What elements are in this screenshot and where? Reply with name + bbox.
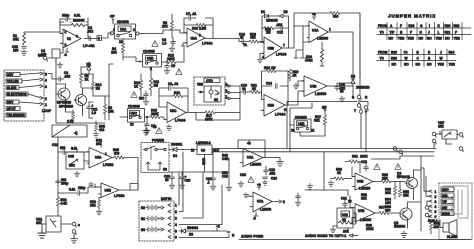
svg-text:2: 2 [283, 200, 285, 204]
node junction [146, 116, 150, 117]
ground [339, 96, 345, 102]
op-amp U2A [183, 28, 212, 47]
svg-text:J: J [428, 31, 430, 35]
svg-text:SLIDE: SLIDE [7, 86, 16, 90]
capacitor C31 [341, 197, 352, 209]
svg-text:YES: YES [398, 37, 404, 41]
wire caps row [169, 158, 229, 185]
capacitor C4b [48, 71, 70, 81]
wire R24 [320, 62, 324, 66]
resistor R18 [249, 33, 264, 44]
svg-text:22K: 22K [382, 176, 389, 180]
svg-text:FROM: FROM [378, 51, 388, 55]
svg-text:682: 682 [60, 146, 66, 150]
analog switch U3A CD4066 [110, 20, 142, 44]
potentiometer VR1 [36, 206, 61, 232]
wire U4A out [328, 32, 353, 78]
resistor R1 [13, 33, 26, 45]
svg-text:U3C: U3C [131, 112, 138, 116]
resistor R42 [96, 139, 103, 148]
svg-text:NO: NO [416, 63, 421, 67]
wire H label [284, 108, 287, 112]
terminal SW [441, 205, 454, 210]
svg-text:13: 13 [119, 40, 123, 44]
svg-text:410: 410 [99, 128, 105, 132]
op-amp U4A [307, 21, 331, 43]
ground top power [143, 125, 157, 135]
svg-text:100: 100 [41, 53, 47, 57]
svg-text:YES: YES [449, 63, 455, 67]
wires Q1 Q2 collectors [56, 60, 109, 123]
svg-text:GND: GND [202, 158, 206, 166]
op-amp U4B [302, 76, 327, 97]
svg-text:POWER: POWER [152, 139, 165, 143]
svg-text:6: 6 [175, 236, 177, 240]
connector HUB pins [428, 190, 438, 223]
op-amp U8A [87, 148, 113, 169]
svg-text:WC: WC [139, 97, 145, 101]
resistor R11 [149, 70, 159, 96]
speaker module dotted box [439, 183, 472, 240]
svg-text:ELECTRNCS: ELECTRNCS [7, 92, 26, 96]
svg-text:U2A: U2A [191, 37, 198, 41]
svg-text:1M: 1M [266, 31, 271, 35]
resistor R37 [375, 206, 400, 215]
svg-text:C5: C5 [171, 64, 175, 68]
svg-text:C9, .01: C9, .01 [168, 82, 179, 86]
svg-text:-9: -9 [64, 53, 67, 57]
transistor Q2 [59, 88, 87, 110]
svg-text:M5: M5 [322, 106, 327, 110]
ground [93, 132, 99, 138]
svg-text:LM393: LM393 [317, 37, 328, 41]
svg-text:C4: C4 [404, 51, 408, 55]
svg-text:SW+: SW+ [442, 188, 449, 192]
wire [60, 18, 92, 39]
svg-text:2: 2 [133, 28, 135, 32]
bus wire +9 [212, 148, 434, 150]
svg-text:U6A: U6A [247, 156, 254, 160]
wire bus end [446, 139, 452, 144]
battery B2 [141, 205, 164, 210]
svg-text:U8A: U8A [95, 156, 102, 160]
svg-text:7: 7 [283, 44, 285, 48]
svg-text:5: 5 [435, 210, 437, 214]
svg-text:-9: -9 [253, 217, 256, 221]
wire Q4 Q3 collectors [350, 156, 421, 231]
svg-text:L: L [438, 31, 440, 35]
svg-text:LF444: LF444 [175, 119, 185, 123]
svg-text:900: 900 [385, 208, 391, 212]
svg-text:1: 1 [226, 95, 228, 99]
svg-text:T: T [354, 109, 356, 113]
svg-text:2: 2 [435, 195, 437, 199]
resistor R28 [56, 197, 68, 206]
svg-text:6K: 6K [214, 98, 219, 102]
resistor R53 [398, 189, 409, 197]
op-amp U6A LM358 [238, 140, 265, 167]
battery box BATTS [139, 197, 174, 241]
svg-text:AUDIO PCMS: AUDIO PCMS [241, 235, 263, 239]
svg-text:27K: 27K [162, 25, 169, 29]
svg-text:C26: C26 [271, 177, 277, 181]
svg-text:D1: D1 [261, 10, 265, 14]
svg-text:HUB-1: HUB-1 [428, 219, 438, 223]
resistor R9 [103, 96, 114, 120]
optocoupler VR2 dashed box [194, 77, 225, 105]
svg-text:F: F [410, 31, 412, 35]
svg-text:YES: YES [454, 37, 460, 41]
svg-text:2: 2 [226, 89, 228, 93]
resistor R20 [262, 26, 281, 34]
connector P1 dashed box [4, 70, 44, 121]
svg-text:R37: R37 [379, 206, 385, 210]
svg-text:YES: YES [438, 63, 444, 67]
svg-text:LF444: LF444 [275, 113, 285, 117]
svg-text:NO: NO [392, 63, 397, 67]
resistor R39 [373, 173, 405, 183]
op-amp U6B LM358 [352, 173, 373, 191]
diode D4a [87, 62, 92, 74]
svg-text:U4A: U4A [312, 29, 319, 33]
svg-text:+9: +9 [312, 13, 316, 17]
op-amp U1 [60, 29, 95, 48]
svg-text:1K: 1K [342, 218, 347, 222]
svg-text:C18: C18 [361, 160, 367, 164]
resistor R16 [134, 74, 143, 96]
svg-text:U3D: U3D [147, 57, 154, 61]
resistor R26 [288, 69, 298, 81]
transistor Q4 MPSA13 [397, 170, 418, 200]
svg-text:U12: U12 [342, 213, 348, 217]
trimpot VR5 [66, 149, 89, 169]
op-amp U7B LM393 [352, 204, 375, 223]
resistor R41b [345, 160, 360, 173]
svg-text:2.2M: 2.2M [199, 27, 206, 31]
connector P1 pins [19, 72, 52, 113]
svg-text:TA: TA [243, 43, 248, 47]
svg-text:1K: 1K [337, 171, 342, 175]
labels R48 [222, 154, 229, 179]
svg-text:13: 13 [130, 123, 134, 127]
output jack J2 [352, 14, 368, 152]
svg-text:3: 3 [435, 200, 437, 204]
svg-text:TIP: TIP [442, 200, 448, 204]
svg-text:100K: 100K [205, 118, 213, 122]
svg-text:JUMPER MATRIX: JUMPER MATRIX [388, 14, 436, 19]
diode D5 1N4001 [179, 226, 214, 237]
svg-text:+9: +9 [257, 183, 261, 187]
terminal SW+ [441, 187, 454, 192]
svg-text:R41: R41 [352, 155, 358, 159]
capacitor C32 [12, 45, 26, 53]
capacitor C25 220p [58, 186, 101, 195]
svg-text:U3A: U3A [120, 28, 127, 32]
connector P1 labels [6, 73, 28, 118]
diode D4 1N4001 [169, 143, 183, 159]
resistor R13 [192, 23, 206, 30]
svg-text:LF444: LF444 [276, 53, 286, 57]
svg-text:R36: R36 [391, 57, 397, 61]
svg-text:1M: 1M [271, 66, 276, 70]
svg-text:~2: ~2 [216, 225, 220, 229]
svg-text:5K: 5K [252, 87, 257, 91]
svg-text:2: 2 [45, 97, 47, 101]
svg-text:.022: .022 [64, 74, 70, 78]
capacitor C16 [240, 84, 250, 95]
jumper matrix table 1 [377, 23, 471, 41]
svg-text:100p: 100p [61, 182, 68, 186]
svg-text:4: 4 [45, 79, 47, 83]
svg-text:3: 3 [65, 43, 67, 47]
svg-text:240: 240 [114, 151, 120, 155]
capacitor C28 with ground [238, 173, 246, 187]
svg-text:LF-441: LF-441 [83, 44, 95, 48]
op-amp U8B [98, 183, 124, 198]
transistor Q1 [56, 84, 71, 105]
capacitor C12 [276, 23, 289, 35]
svg-text:RING: RING [442, 212, 450, 216]
svg-text:SPOT: SPOT [7, 107, 16, 111]
svg-text:R32: R32 [454, 24, 460, 28]
svg-text:HL3M5: HL3M5 [447, 235, 458, 239]
svg-text:U5B: U5B [268, 47, 275, 51]
node 6 tag [97, 36, 102, 41]
inline connector on bus [393, 147, 402, 155]
svg-text:1K: 1K [134, 85, 139, 89]
resistor R49 [112, 148, 138, 190]
bus wires from CD4066 U3B to jack [287, 102, 357, 152]
svg-text:1: 1 [105, 152, 107, 156]
capacitor C22 682 [52, 143, 89, 154]
svg-text:4: 4 [435, 205, 437, 209]
resistor R45 [429, 221, 439, 234]
svg-text:LM393: LM393 [360, 218, 371, 222]
svg-text:C12: C12 [277, 31, 283, 35]
svg-text:C7, .01: C7, .01 [186, 12, 197, 16]
svg-text:LM358: LM358 [359, 187, 370, 191]
svg-text:.022: .022 [269, 172, 275, 176]
svg-text:a: a [78, 223, 80, 227]
svg-text:TO: TO [380, 31, 385, 35]
svg-text:LM393: LM393 [260, 208, 271, 212]
wire U4A input [294, 26, 309, 42]
svg-text:15K: 15K [403, 193, 410, 197]
svg-text:.022: .022 [276, 23, 282, 27]
battery pins [168, 204, 177, 240]
resistor R30 [330, 168, 352, 181]
svg-text:B1: B1 [141, 217, 145, 221]
wire U2D out to U4B [285, 81, 304, 105]
capacitor C21 electrolytic [87, 102, 98, 115]
svg-text:LM7805-8: LM7805-8 [196, 141, 211, 145]
svg-text:R20: R20 [391, 51, 397, 55]
capacitor C30 [335, 83, 353, 94]
svg-text:J: J [440, 51, 442, 55]
svg-text:6: 6 [98, 37, 100, 41]
mic jack [38, 54, 52, 62]
svg-text:11: 11 [311, 129, 315, 133]
svg-text:-Q: -Q [74, 131, 78, 135]
svg-text:1N5231B: 1N5231B [356, 86, 370, 90]
analog switch U3C CD4066 [124, 105, 145, 127]
resistor R29 [90, 198, 101, 210]
ground mid [139, 97, 145, 101]
svg-text:R22: R22 [264, 66, 270, 70]
svg-text:CD4066: CD4066 [117, 20, 129, 24]
svg-text:4.4K: 4.4K [61, 201, 68, 205]
svg-text:1.0: 1.0 [162, 42, 167, 46]
capacitor C19 [264, 166, 276, 176]
input network box [41, 48, 63, 62]
svg-text:1N4001: 1N4001 [171, 143, 182, 147]
svg-text:NO: NO [389, 37, 394, 41]
optocoupler VR3 box [337, 208, 353, 228]
resistor R6 [162, 14, 174, 38]
svg-text:LF444: LF444 [202, 42, 212, 46]
svg-text:NO: NO [427, 37, 432, 41]
resistor R10 [67, 110, 75, 124]
svg-text:3: 3 [45, 85, 47, 89]
svg-text:I: I [429, 24, 430, 28]
capacitor C23 [206, 177, 216, 190]
svg-text:U7B: U7B [358, 209, 365, 213]
svg-text:MPSA13: MPSA13 [397, 175, 410, 179]
svg-text:R34: R34 [449, 51, 455, 55]
svg-text:9: 9 [199, 34, 201, 38]
wire U7A out [272, 200, 285, 204]
warning triangle 2 [176, 69, 182, 75]
svg-text:.1: .1 [207, 180, 210, 184]
svg-text:15: 15 [153, 125, 157, 129]
svg-text:D4: D4 [173, 154, 177, 158]
capacitor C26 [262, 177, 277, 186]
wire input [120, 116, 147, 118]
analog switch U3D CD4066 [139, 50, 162, 71]
svg-text:U6B: U6B [357, 180, 364, 184]
svg-text:R13: R13 [192, 27, 198, 31]
label R41 [352, 155, 434, 160]
capacitor C18 [361, 160, 368, 171]
capacitor C9 [168, 82, 179, 90]
ground [21, 50, 27, 56]
voltage regulator U9 LM7805 [183, 141, 219, 172]
svg-text:2: 2 [175, 210, 177, 214]
capacitor C6 [144, 117, 155, 134]
svg-text:U1: U1 [67, 37, 71, 41]
switch pin OP [110, 15, 115, 25]
svg-text:U4B: U4B [310, 85, 317, 89]
svg-text:50K: 50K [69, 164, 76, 168]
svg-text:10: 10 [240, 36, 244, 40]
resistor R27 [314, 106, 327, 137]
labels cluster bottom right [361, 193, 392, 212]
svg-text:25: 25 [165, 178, 169, 182]
bus wire return [213, 152, 434, 172]
svg-text:YES: YES [408, 37, 414, 41]
svg-text:LM358: LM358 [250, 163, 261, 167]
svg-text:U7A: U7A [257, 200, 264, 204]
svg-text:CD4066: CD4066 [143, 50, 155, 54]
optocoupler VR2 [197, 78, 240, 102]
ground R29 [96, 209, 102, 215]
svg-text:SW: SW [442, 206, 447, 210]
feedback wire U2 [184, 18, 213, 39]
resistor R24 [305, 42, 324, 63]
svg-text:10: 10 [291, 129, 295, 133]
ground Q3 [401, 231, 407, 237]
ground U5B plus [257, 54, 264, 63]
wire U3A out to U2 [142, 30, 187, 34]
svg-text:LF353: LF353 [114, 194, 124, 198]
ground trimpot [74, 171, 80, 177]
svg-text:C45: C45 [68, 155, 74, 159]
svg-text:470K: 470K [305, 59, 313, 63]
power switch S1 dashed box [141, 139, 169, 173]
ground U7A minus [243, 193, 250, 198]
svg-text:S2: S2 [163, 168, 167, 172]
ground [169, 46, 175, 52]
resistor R12 [162, 47, 185, 64]
capacitor C10 with ground [143, 91, 149, 105]
wire -9 below [253, 213, 258, 221]
svg-text:100K: 100K [167, 57, 175, 61]
wire [102, 33, 112, 38]
ground jack [71, 236, 78, 243]
svg-text:TIP: TIP [390, 31, 396, 35]
svg-text:.012: .012 [87, 30, 93, 34]
svg-text:100K: 100K [360, 155, 368, 159]
svg-text:VR2: VR2 [197, 83, 203, 87]
svg-text:AUDIO ROMS TO C27Y-1: AUDIO ROMS TO C27Y-1 [305, 234, 347, 238]
svg-text:C10: C10 [222, 175, 228, 179]
wire hub feeds [421, 168, 429, 206]
svg-text:U3B: U3B [298, 122, 305, 126]
jumper matrix table 2 [377, 49, 456, 67]
resistor R17 [194, 111, 240, 122]
svg-text:TO: TO [380, 57, 385, 61]
svg-text:KEY: KEY [7, 73, 14, 77]
capacitor C1 390p [60, 14, 88, 26]
jack J3 [61, 222, 80, 236]
op-amp U2C [159, 102, 186, 123]
svg-text:220K: 220K [366, 227, 374, 231]
terminal SW- [441, 193, 454, 198]
svg-text:33K: 33K [361, 196, 368, 200]
wire [24, 32, 63, 34]
svg-text:1N4001: 1N4001 [187, 226, 198, 230]
ground U2C plus [164, 120, 172, 131]
svg-text:R20: R20 [445, 24, 451, 28]
svg-text:B2: B2 [141, 206, 145, 210]
svg-text:C14: C14 [266, 82, 272, 86]
ground top of Q1 [57, 62, 63, 68]
capacitor C7 [186, 12, 197, 20]
svg-text:2K: 2K [293, 74, 298, 78]
svg-text:SW-: SW- [442, 194, 448, 198]
audio text right [305, 234, 358, 238]
svg-text:1: 1 [113, 28, 115, 32]
svg-text:100: 100 [13, 49, 19, 53]
svg-text:4: 4 [175, 223, 177, 227]
resistor R40 [385, 186, 397, 199]
svg-text:LM393: LM393 [315, 92, 326, 96]
resistor R8 [79, 67, 89, 88]
svg-text:10K: 10K [36, 221, 43, 225]
svg-text:MPS6520: MPS6520 [59, 105, 73, 109]
op-amp U2D [261, 95, 285, 117]
capacitor C29 with ground [295, 193, 301, 206]
